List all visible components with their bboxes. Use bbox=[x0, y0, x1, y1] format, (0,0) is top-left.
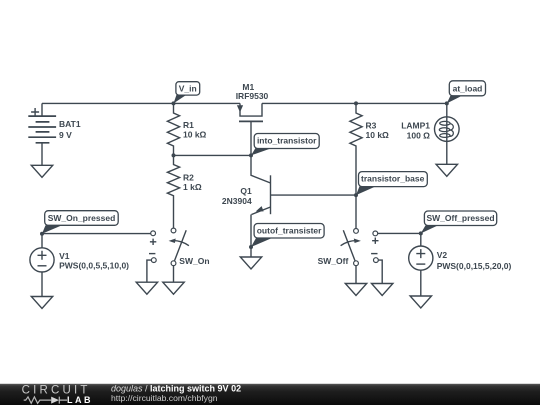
svg-text:SW_Off: SW_Off bbox=[318, 256, 349, 266]
svg-text:V2: V2 bbox=[437, 250, 448, 260]
svg-text:at_load: at_load bbox=[453, 83, 483, 93]
svg-text:BAT1: BAT1 bbox=[59, 119, 81, 129]
svg-text:V_in: V_in bbox=[179, 83, 197, 93]
svg-text:9 V: 9 V bbox=[59, 130, 72, 140]
svg-text:dogulas / latching switch 9V 0: dogulas / latching switch 9V 02 bbox=[111, 383, 241, 393]
svg-text:R3: R3 bbox=[366, 121, 377, 131]
svg-text:into_transistor: into_transistor bbox=[257, 136, 317, 146]
svg-text:http://circuitlab.com/chbfygn: http://circuitlab.com/chbfygn bbox=[111, 393, 218, 403]
svg-text:2N3904: 2N3904 bbox=[222, 196, 252, 206]
svg-text:1 kΩ: 1 kΩ bbox=[183, 182, 202, 192]
svg-text:10 kΩ: 10 kΩ bbox=[183, 130, 207, 140]
svg-text:LAB: LAB bbox=[67, 395, 93, 405]
svg-text:SW_On_pressed: SW_On_pressed bbox=[48, 213, 116, 223]
svg-text:Q1: Q1 bbox=[240, 186, 252, 196]
svg-text:SW_Off_pressed: SW_Off_pressed bbox=[426, 213, 494, 223]
svg-text:outof_transister: outof_transister bbox=[257, 225, 322, 235]
svg-text:PWS(0,0,15,5,20,0): PWS(0,0,15,5,20,0) bbox=[437, 261, 512, 271]
svg-text:PWS(0,0,5,5,10,0): PWS(0,0,5,5,10,0) bbox=[59, 261, 129, 271]
svg-text:SW_On: SW_On bbox=[179, 256, 209, 266]
svg-text:LAMP1: LAMP1 bbox=[401, 121, 430, 131]
svg-text:transistor_base: transistor_base bbox=[361, 174, 425, 184]
svg-text:IRF9530: IRF9530 bbox=[236, 91, 269, 101]
svg-text:100 Ω: 100 Ω bbox=[407, 130, 431, 140]
svg-text:R2: R2 bbox=[183, 173, 194, 183]
svg-text:V1: V1 bbox=[59, 251, 70, 261]
svg-text:10 kΩ: 10 kΩ bbox=[366, 130, 390, 140]
svg-text:R1: R1 bbox=[183, 120, 194, 130]
